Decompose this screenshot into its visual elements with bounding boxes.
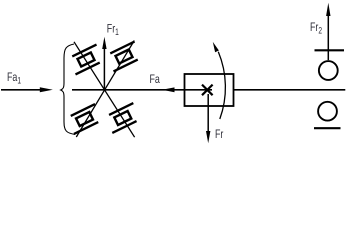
svg-text:Fa: Fa: [150, 73, 160, 87]
svg-text:Fr2: Fr2: [310, 21, 322, 36]
svg-text:Fr: Fr: [215, 128, 224, 142]
svg-text:Fa1: Fa1: [7, 71, 22, 86]
svg-text:Fr1: Fr1: [107, 22, 120, 37]
